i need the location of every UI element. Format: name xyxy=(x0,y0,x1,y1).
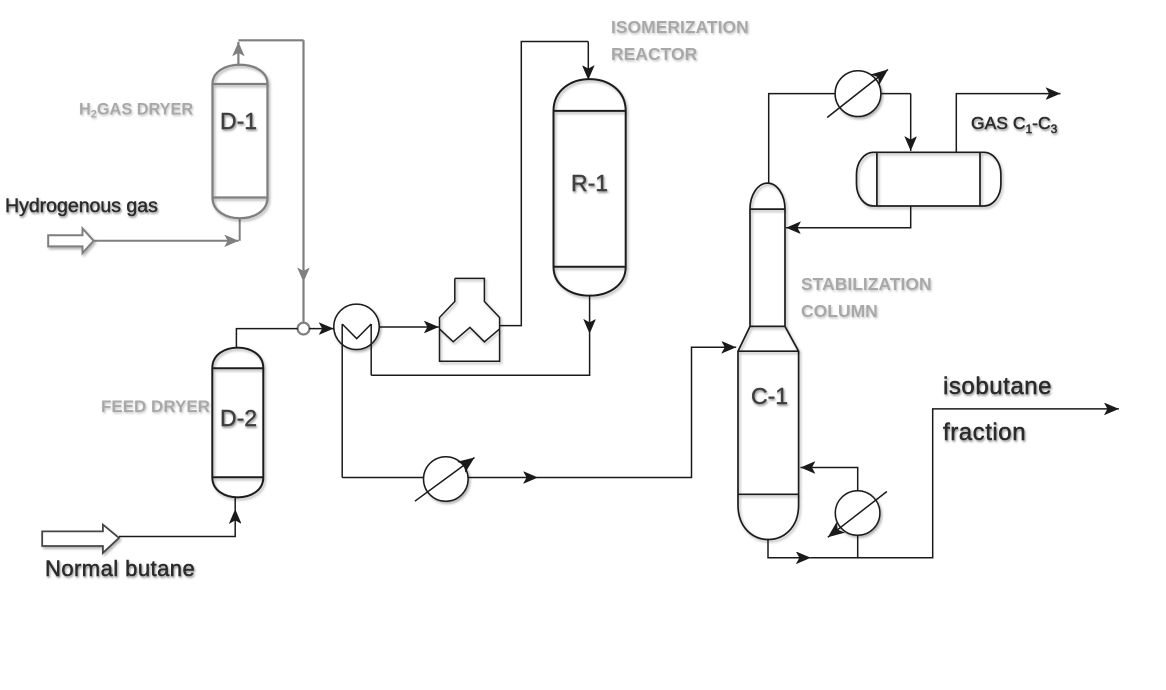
svg-text:Normal butane: Normal butane xyxy=(45,556,195,581)
wire: C-1 bottoms line to isobutane product xyxy=(768,409,1119,558)
furnace (fired heater) xyxy=(440,278,500,361)
wire: exchanger outlet to furnace xyxy=(379,326,439,328)
node: mixing point circle xyxy=(298,323,310,335)
svg-text:R-1: R-1 xyxy=(571,170,608,196)
vessel D-2 (feed dryer) xyxy=(212,348,263,498)
wire: exchanger cold outlet down to cooler xyxy=(342,477,423,479)
svg-text:Hydrogenous gas: Hydrogenous gas xyxy=(5,195,158,217)
condenser (overhead cooler) xyxy=(827,70,888,118)
reboiler xyxy=(828,491,887,538)
block arrow: normal butane inlet xyxy=(42,525,119,553)
vessel R-1 (isomerization reactor) xyxy=(554,79,626,296)
svg-text:FEED DRYER: FEED DRYER xyxy=(101,397,210,416)
wire: condenser to drum xyxy=(881,94,911,151)
wire: hydrogenous gas feed line into D-1 bottom xyxy=(94,218,240,241)
vessel D-1 (H2 gas dryer) xyxy=(213,65,268,219)
wire: furnace outlet up and over to R-1 xyxy=(500,42,589,326)
wire: cooler to C-1 feed xyxy=(468,347,736,477)
svg-text:ISOMERIZATION: ISOMERIZATION xyxy=(611,17,749,37)
svg-text:C-1: C-1 xyxy=(751,383,788,409)
wire: D-2 top outlet to node xyxy=(236,329,333,348)
svg-text:GAS C1-C3: GAS C1-C3 xyxy=(971,113,1058,136)
wire: R-1 outlet down, left to exchanger xyxy=(371,295,589,375)
svg-text:COLUMN: COLUMN xyxy=(801,301,878,321)
svg-text:REACTOR: REACTOR xyxy=(611,44,698,64)
wire: C-1 overhead to condenser xyxy=(769,94,835,183)
wire: drum bottoms reflux to C-1 xyxy=(786,206,911,228)
svg-text:D-2: D-2 xyxy=(220,405,257,431)
svg-text:isobutane: isobutane xyxy=(943,373,1052,400)
svg-text:STABILIZATION: STABILIZATION xyxy=(801,274,932,294)
wire: reboiler return to C-1 xyxy=(801,468,858,491)
svg-text:H2GAS DRYER: H2GAS DRYER xyxy=(79,101,193,121)
wire: drum gas outlet xyxy=(956,94,1060,153)
column C-1 (stabilization column) xyxy=(738,183,799,539)
cooler (after exchanger) xyxy=(415,457,475,502)
heat exchanger E-1 (circle with M) xyxy=(334,304,379,477)
block arrow: hydrogenous gas inlet xyxy=(48,229,93,254)
wire: D-1 top outlet to recycle line xyxy=(238,40,303,323)
svg-text:D-1: D-1 xyxy=(220,108,257,134)
drum (reflux accumulator) xyxy=(857,152,1001,206)
wire: normal butane feed to D-2 xyxy=(119,497,235,536)
svg-text:fraction: fraction xyxy=(943,419,1026,446)
